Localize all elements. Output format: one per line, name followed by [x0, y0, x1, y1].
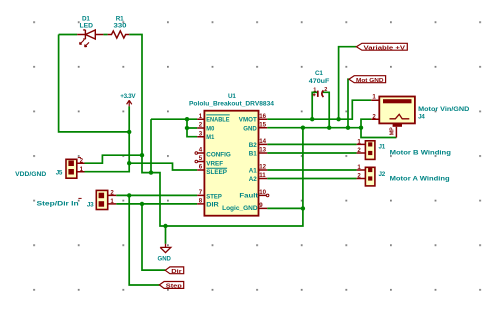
- wire GND symbol lead: [165, 226, 167, 244]
- wire GND to J4 pin2: [361, 119, 371, 128]
- svg-text:GND: GND: [158, 255, 172, 262]
- svg-text:MP: MP: [389, 127, 395, 135]
- svg-text:1: 1: [313, 87, 316, 93]
- svg-text:1: 1: [110, 198, 114, 205]
- wire J5 pin2 jog to GND vertical: [85, 155, 143, 163]
- svg-text:1: 1: [372, 94, 376, 101]
- svg-text:GND: GND: [243, 125, 257, 132]
- connector J4 barrel jack Motor Vin/GND: [371, 94, 470, 138]
- svg-text:VDD/GND: VDD/GND: [15, 171, 46, 178]
- svg-text:R1: R1: [116, 16, 124, 23]
- wire top loop from R1 right down-around to GND rail: [129, 35, 303, 227]
- svg-text:U1: U1: [228, 93, 236, 100]
- svg-text:ENABLE: ENABLE: [206, 117, 230, 124]
- wire Mot GND label drop: [347, 79, 350, 128]
- IC pin names: [206, 117, 259, 213]
- wire Step label drop: [129, 195, 159, 285]
- IC right pin stubs 9-16: [259, 119, 268, 208]
- svg-text:Fault: Fault: [239, 193, 259, 200]
- svg-text:A1: A1: [249, 167, 257, 174]
- svg-text:1: 1: [357, 139, 361, 146]
- svg-text:Step/Dir In: Step/Dir In: [37, 201, 79, 208]
- svg-text:J2: J2: [379, 171, 386, 178]
- svg-text:A2: A2: [249, 176, 257, 183]
- svg-text:J1: J1: [379, 144, 386, 151]
- svg-text:2: 2: [357, 173, 361, 180]
- svg-text:16: 16: [259, 113, 266, 120]
- wire Logic_GND pin9: [267, 207, 303, 209]
- wire +3.3V vertical down to J5 pin1: [85, 106, 130, 172]
- connector J2 Motor A Winding: [357, 164, 450, 186]
- IC pin numbers left: [199, 113, 203, 205]
- wire GND rail pin15: [267, 127, 361, 129]
- svg-text:M1: M1: [206, 134, 214, 141]
- wire Variable +V label drop: [339, 47, 357, 120]
- svg-text:2: 2: [372, 113, 376, 120]
- svg-text:Dir: Dir: [171, 269, 182, 275]
- svg-text:CONFIG: CONFIG: [206, 152, 231, 159]
- wire GND to J4 MP: [361, 128, 396, 138]
- junction dots: [127, 117, 363, 228]
- svg-text:VREF: VREF: [206, 160, 223, 167]
- svg-text:Step: Step: [166, 284, 183, 290]
- connector J1 Motor B Winding: [357, 139, 451, 160]
- global label Dir: [165, 267, 184, 275]
- svg-text:15: 15: [259, 122, 266, 129]
- svg-text:330: 330: [114, 23, 128, 30]
- svg-text:2: 2: [357, 147, 361, 154]
- svg-text:Variable +V: Variable +V: [364, 45, 406, 51]
- LED D1: [77, 30, 103, 47]
- wire +3.3V to SLEEP pin 6: [129, 163, 197, 170]
- wire STEP line J3.2 to pin7: [116, 194, 197, 196]
- svg-text:DIR: DIR: [206, 202, 219, 209]
- svg-text:VMOT: VMOT: [239, 117, 257, 124]
- wire top-left segment to LED: [59, 34, 78, 36]
- svg-text:470uF: 470uF: [309, 78, 330, 85]
- svg-text:12: 12: [259, 164, 266, 171]
- wire B2 to J1.1: [267, 143, 356, 145]
- svg-text:2: 2: [110, 190, 114, 197]
- wire C1 pin2 to GND rail: [323, 92, 329, 127]
- global label Variable +V: [356, 43, 407, 51]
- overbar SLEEP: [206, 167, 227, 169]
- wire ENABLE net to pin1: [151, 118, 197, 120]
- wire Dir label drop: [142, 204, 165, 270]
- wire LED to R1: [103, 34, 107, 36]
- wire B1 to J1.2: [267, 152, 356, 154]
- svg-text:10: 10: [259, 189, 266, 196]
- svg-text:+3.3V: +3.3V: [120, 93, 136, 100]
- svg-text:1: 1: [357, 164, 361, 171]
- svg-text:13: 13: [259, 147, 266, 154]
- svg-text:C1: C1: [315, 70, 323, 77]
- IC pin numbers right: [259, 113, 266, 209]
- svg-text:Motor A Winding: Motor A Winding: [390, 175, 450, 182]
- wire ENABLE chain down to GND rail: [150, 119, 152, 172]
- wire left vertical of LED loop: [59, 35, 130, 132]
- capacitor C1: [309, 70, 330, 97]
- wire VMOT rail to J4 pin1: [267, 100, 371, 119]
- power +3.3V: [120, 93, 136, 106]
- svg-text:B2: B2: [249, 142, 257, 149]
- svg-text:M0: M0: [206, 125, 214, 132]
- svg-text:Motor Vin/GND: Motor Vin/GND: [418, 106, 470, 113]
- resistor R1: [108, 31, 130, 38]
- global label Mot GND: [349, 76, 386, 84]
- svg-text:SLEEP: SLEEP: [206, 169, 227, 176]
- svg-text:J3: J3: [87, 202, 94, 209]
- svg-text:D1: D1: [82, 16, 90, 23]
- global label Step: [159, 282, 183, 290]
- wire DIR line J3.1 to pin8: [116, 203, 197, 205]
- svg-text:J5: J5: [56, 170, 63, 177]
- wire ENABLE chain vertical to pins 2,3: [187, 119, 197, 137]
- svg-text:Mot GND: Mot GND: [356, 78, 384, 84]
- svg-text:Pololu_Breakout_DRV8834: Pololu_Breakout_DRV8834: [189, 100, 275, 107]
- svg-text:STEP: STEP: [206, 193, 222, 200]
- op IC U1 Pololu Breakout DRV8834: [189, 93, 275, 216]
- wire C1 pin1 to VMOT rail: [312, 92, 318, 119]
- wire A2 to J2.2: [267, 178, 356, 180]
- connector J3 Step/Dir In: [37, 190, 117, 210]
- svg-text:2: 2: [324, 87, 327, 93]
- svg-text:LED: LED: [80, 23, 94, 30]
- svg-text:B1: B1: [249, 150, 257, 157]
- ground symbol GND: [158, 244, 172, 263]
- IC left pin stubs 1-8: [197, 119, 204, 204]
- connector J5 VDD/GND: [15, 157, 84, 178]
- no-connect circles pins 4,5,10: [195, 152, 269, 197]
- svg-text:J4: J4: [418, 113, 425, 120]
- svg-text:Motor B Winding: Motor B Winding: [390, 150, 451, 157]
- wire A1 to J2.1: [267, 169, 356, 171]
- svg-text:14: 14: [259, 138, 266, 145]
- overbar ENABLE: [206, 114, 229, 116]
- svg-text:11: 11: [259, 172, 266, 179]
- svg-text:Logic_GND: Logic_GND: [222, 205, 258, 212]
